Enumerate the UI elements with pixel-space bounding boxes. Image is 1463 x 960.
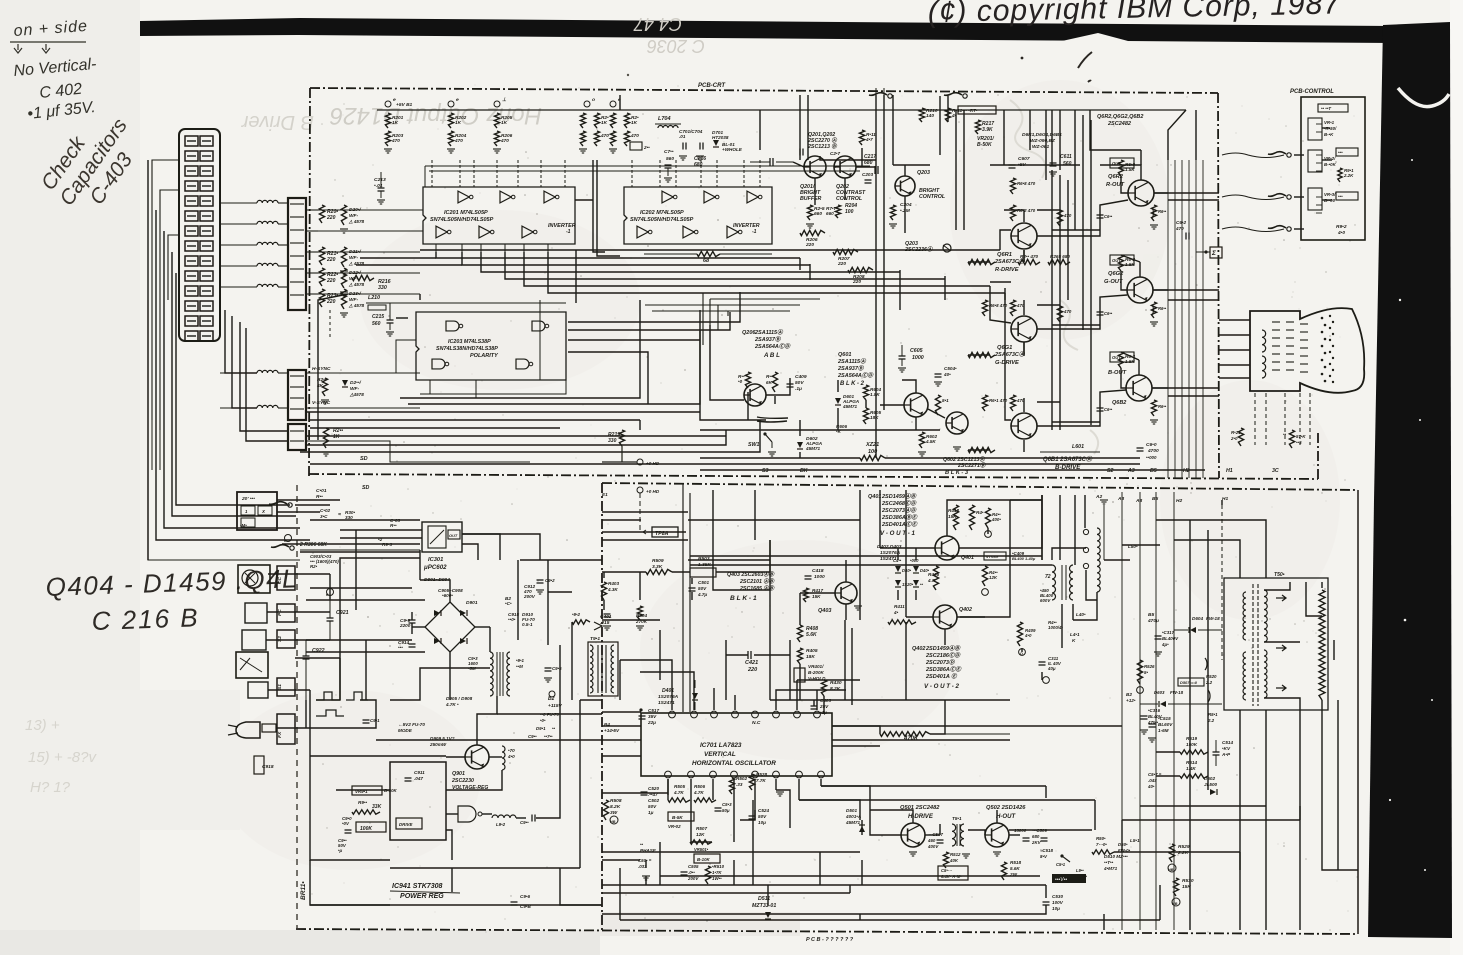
svg-text:45M71: 45M71 (842, 404, 858, 409)
svg-text:A B L: A B L (763, 352, 780, 359)
svg-text:B L K - 2: B L K - 2 (840, 381, 865, 387)
wires vertical osc area (620, 660, 672, 700)
bus loop around IC203 (396, 317, 408, 319)
svg-text:C 2036: C 2036 (646, 36, 705, 56)
photocopy speckle (300, 85, 1358, 933)
svg-text:C5•1: C5•1 (1056, 862, 1066, 867)
svg-text:1K: 1K (392, 120, 399, 126)
resistor R630 1.5K (1118, 160, 1123, 176)
resistor R207 220 (833, 249, 858, 254)
svg-text:R508: R508 (610, 798, 622, 804)
upper section border PCB-CRT (310, 88, 1218, 93)
svg-text:+14•5V: +14•5V (604, 728, 620, 733)
inductor L902 (492, 815, 516, 818)
white squiggle in black bar (1398, 88, 1449, 107)
svg-text:JL500: JL500 (1204, 782, 1218, 787)
control pins (1316, 123, 1322, 125)
svg-text:B Driver: B Driver (240, 111, 314, 133)
svg-text:4.3K: 4.3K (607, 587, 618, 592)
svg-text:G-DRIVE: G-DRIVE (995, 360, 1019, 366)
svg-text:4.7K •: 4.7K • (445, 702, 459, 707)
svg-text:18K: 18K (870, 415, 879, 420)
svg-text:VR•02: VR•02 (668, 824, 681, 829)
svg-text:B-5K: B-5K (672, 815, 683, 820)
svg-text:Σ: Σ (1211, 250, 1216, 257)
diode D208 (342, 380, 348, 386)
svg-text:2SC2186ⒸⒹ: 2SC2186ⒸⒹ (925, 652, 961, 659)
nested box corners left of ABL (702, 293, 704, 345)
svg-text:•C317: •C317 (1162, 630, 1175, 635)
svg-text:1-6M: 1-6M (1158, 728, 1169, 733)
svg-text:V - O U T - 2: V - O U T - 2 (924, 683, 959, 690)
edge connector P202 (288, 370, 306, 420)
left vertical wire bundle (156, 210, 310, 540)
power section wires (310, 690, 390, 860)
spark gaps (1205, 658, 1210, 702)
svg-text:50V: 50V (648, 804, 657, 809)
svg-text:•000: •000 (910, 558, 919, 563)
yoke coil tall (1097, 528, 1100, 592)
svg-text:•0: •0 (738, 379, 743, 384)
svg-text:R430: R430 (830, 680, 842, 686)
svg-text:1K: 1K (631, 120, 638, 126)
resistor R220 68 (697, 251, 720, 256)
svg-text:•C316: •C316 (1148, 708, 1161, 713)
node symbols on rail (385, 101, 391, 107)
svg-text:B-•K: B-•K (1324, 132, 1334, 137)
svg-text:R519: R519 (1186, 736, 1197, 741)
svg-text:μPC602: μPC602 (423, 564, 447, 571)
svg-text:2.2K: 2.2K (1343, 173, 1354, 178)
svg-text:2SA673CⒶ: 2SA673CⒶ (994, 258, 1026, 265)
flyback taps (1264, 582, 1290, 590)
transistor Q502 (985, 823, 1009, 847)
sigma box on border (1210, 247, 1222, 258)
svg-text:5•: 5• (1144, 670, 1148, 675)
left page dashed edge (296, 485, 298, 928)
svg-text:C5•⋯: C5•⋯ (941, 868, 953, 873)
resistor pair column 4 (580, 113, 585, 128)
black bar speckles (1389, 159, 1433, 871)
svg-text:5.6K: 5.6K (1010, 866, 1020, 871)
svg-text:C605: C605 (910, 348, 923, 354)
svg-text:2SD1459ⒶⒷ: 2SD1459ⒶⒷ (881, 493, 917, 500)
svg-text:57•K: 57•K (1296, 434, 1306, 439)
svg-text:C517: C517 (648, 708, 659, 713)
svg-text:INVERTER: INVERTER (548, 223, 576, 229)
svg-text:12K: 12K (989, 575, 998, 580)
svg-text:2.2: 2.2 (1205, 680, 1213, 685)
transistor Q602b (946, 412, 968, 434)
resistor cluster R211 R212 (319, 205, 324, 223)
svg-text:••T••: ••T•• (1104, 860, 1114, 865)
svg-text:560: 560 (1063, 161, 1072, 167)
black strip top (140, 18, 1392, 43)
svg-text:FX: FX (277, 731, 283, 738)
diodes D402-D405 (895, 566, 901, 572)
wires BLK-1 (602, 571, 646, 573)
bottom rail wires lower section (620, 919, 1160, 921)
svg-text:•C•: •C• (505, 601, 512, 606)
IC202 pin stubs (631, 160, 633, 187)
svg-text:5•1: 5•1 (942, 398, 949, 403)
IC202 inverters bottom row (637, 226, 648, 238)
svg-text:1•7K: 1•7K (712, 870, 722, 875)
svg-text:C514: C514 (1222, 740, 1233, 745)
svg-text:40•: 40• (1147, 784, 1155, 789)
resistor horizontals drive (968, 259, 995, 264)
boxed label VR range (958, 106, 996, 114)
svg-text:H2: H2 (1183, 468, 1190, 474)
svg-text:C502: C502 (648, 798, 659, 803)
svg-text:C501: C501 (698, 580, 709, 585)
svg-text:680: 680 (1032, 834, 1040, 839)
svg-text:+5V B1: +5V B1 (396, 102, 413, 108)
resistor R4 12K (982, 566, 987, 586)
transistor Q401 (935, 536, 959, 560)
svg-text:POLARITY: POLARITY (470, 353, 499, 359)
svg-text:+WHOLE: +WHOLE (722, 147, 743, 152)
svg-text:1K: 1K (333, 434, 340, 440)
resistor network drive stage (1010, 178, 1015, 194)
svg-text:4•0: 4•0 (1024, 633, 1032, 638)
node +0 HD upper (637, 459, 643, 465)
yoke pins (1083, 529, 1088, 534)
svg-text:SN74LS05N/HD74LS05P: SN74LS05N/HD74LS05P (630, 217, 694, 223)
svg-text:2SA673CⒶ: 2SA673CⒶ (994, 351, 1026, 358)
edge connector P201 (288, 198, 306, 310)
svg-text:B5: B5 (1150, 468, 1157, 474)
power region horizontal wires (310, 519, 420, 521)
svg-text:3.3K: 3.3K (652, 564, 663, 570)
svg-text:15) + -8?v: 15) + -8?v (28, 749, 97, 766)
dashed stub (329, 310, 331, 340)
right bus horizontals (1154, 192, 1219, 194)
fuse F901 (262, 724, 276, 732)
transistor Q201 bright buffer (804, 156, 826, 178)
svg-text:2SA1115Ⓐ: 2SA1115Ⓐ (837, 358, 867, 365)
svg-text:R6••: R6•• (1158, 404, 1167, 409)
svg-text:40μ: 40μ (1047, 666, 1056, 671)
svg-text:2SD401AⒸⒺ: 2SD401AⒸⒺ (881, 521, 918, 528)
svg-text:VR•3/: VR•3/ (1324, 192, 1336, 197)
transistor Q501 (901, 823, 925, 847)
svg-text:C409: C409 (795, 374, 807, 380)
left long wires (151, 420, 153, 470)
svg-text:L704: L704 (658, 116, 671, 122)
svg-text:Q6R2,Q6G2,Q6B2: Q6R2,Q6G2,Q6B2 (1097, 114, 1143, 120)
svg-text:400V: 400V (927, 844, 939, 849)
svg-text:470: 470 (500, 138, 509, 144)
svg-text:100V: 100V (1052, 900, 1064, 905)
svg-text:3•C: 3•C (320, 514, 328, 519)
edge connector P203 (288, 424, 306, 450)
pot VR501 B-10K (694, 854, 720, 863)
svg-text:140: 140 (926, 113, 934, 119)
svg-text:1S2076A: 1S2076A (658, 694, 679, 700)
svg-text:L9•2: L9•2 (496, 822, 506, 827)
svg-text:R•21: R•21 (1231, 430, 1241, 435)
svg-text:B-50K: B-50K (977, 142, 992, 148)
svg-text:C921: C921 (336, 610, 349, 616)
svg-text:SW1: SW1 (748, 442, 759, 448)
resistor R605 18K (863, 408, 868, 424)
svg-text:H2: H2 (1176, 498, 1182, 504)
svg-text:C4 47: C4 47 (633, 14, 682, 34)
svg-text:220: 220 (747, 667, 757, 673)
wires IC301 (340, 529, 422, 531)
svg-text:SN74LS38N/HD74LS38P: SN74LS38N/HD74LS38P (436, 346, 498, 352)
svg-text:•600•: •600• (442, 593, 453, 598)
svg-text:2KV: 2KV (1031, 840, 1042, 845)
svg-text:•R510: •R510 (712, 864, 725, 869)
svg-text:R529: R529 (1178, 844, 1190, 850)
svg-text:L9••: L9•• (1076, 868, 1084, 873)
svg-text:R9•2: R9•2 (1336, 224, 1347, 230)
svg-text:C6•0: C6•0 (1146, 442, 1157, 448)
white page edge right (1450, 0, 1463, 955)
svg-text:VR•1: VR•1 (1324, 120, 1335, 125)
svg-text:1000/4•: 1000/4• (1048, 625, 1063, 630)
svg-text:470μ•: 470μ• (1075, 874, 1087, 879)
IC203 NAND gates bottom (432, 359, 445, 369)
test point TP8A (652, 527, 678, 537)
svg-text:220: 220 (326, 215, 336, 221)
svg-text:H-DRIVE: H-DRIVE (908, 814, 934, 820)
svg-text:.01: .01 (679, 134, 686, 139)
svg-text:Q502 2SD1426: Q502 2SD1426 (986, 805, 1026, 811)
svg-text:-1: -1 (566, 229, 571, 235)
svg-text:R6•8 470: R6•8 470 (1017, 181, 1036, 186)
transistor Q6R2 R-OUT (1128, 180, 1154, 206)
svg-text:R4•: R4• (976, 510, 984, 515)
svg-text:B-•0K: B-•0K (1324, 162, 1337, 167)
transistor Q601b (904, 393, 928, 417)
svg-text:C 216 B: C 216 B (91, 602, 200, 636)
boxed VR901 (352, 786, 382, 795)
transistor Q6R1 R-DRIVE (1011, 223, 1037, 249)
svg-text:1S20•: 1S20• (902, 582, 914, 587)
svg-text:D901: D901 (466, 600, 478, 606)
svg-text:C9•5: C9•5 (552, 666, 562, 671)
resistor R717 660 (835, 205, 840, 218)
svg-text:C524: C524 (758, 808, 769, 813)
control pot 1 (1308, 118, 1322, 140)
fuse P902 (572, 620, 590, 624)
svg-text:68: 68 (703, 258, 710, 264)
white notch in top strip (1062, 33, 1128, 41)
svg-text:VR401/: VR401/ (808, 664, 824, 669)
svg-text:4.5K: 4.5K (925, 439, 936, 444)
svg-text:Q6B1 2SA673CⒶ: Q6B1 2SA673CⒶ (1043, 455, 1093, 463)
svg-text:R518: R518 (1010, 860, 1021, 865)
svg-text:D50•: D50• (1118, 842, 1128, 847)
connector curl 2 (290, 546, 294, 550)
power rail +5V (377, 109, 1186, 111)
flyback transformer T501 outline (1224, 578, 1328, 710)
svg-text:5.6K: 5.6K (806, 632, 817, 638)
svg-text:T9•1: T9•1 (590, 636, 600, 642)
edge connector boxes lower (277, 566, 295, 590)
svg-text:R••: R•• (316, 494, 323, 500)
CRT heater coils (1262, 330, 1266, 352)
svg-text:D603: D603 (1154, 690, 1165, 695)
svg-text:L601: L601 (1072, 444, 1084, 450)
svg-text:D6R1,D6G1,D6B1: D6R1,D6G1,D6B1 (1022, 132, 1062, 138)
svg-text:4•0: 4•0 (1337, 230, 1345, 236)
upper right rail drops (1029, 110, 1031, 150)
svg-text:50V: 50V (698, 586, 707, 591)
svg-text:XZ21: XZ21 (865, 442, 879, 448)
resistor R218 4K (322, 378, 327, 396)
wire bundle connector to edge (220, 202, 257, 204)
transistor Q901 voltage reg (465, 745, 489, 769)
svg-text:460: 460 (927, 838, 936, 843)
svg-text:••000: ••000 (1146, 455, 1157, 460)
svg-text:e: e (456, 98, 459, 103)
IC201 pin stubs (431, 160, 433, 187)
svg-text:R503: R503 (698, 556, 710, 562)
transistor Q403 (835, 582, 857, 604)
svg-text:OUT: OUT (449, 533, 458, 538)
svg-text:35V: 35V (648, 714, 657, 719)
svg-text:22μ: 22μ (647, 720, 656, 725)
svg-text:R505: R505 (674, 784, 685, 789)
svg-text:D9•1: D9•1 (536, 726, 546, 731)
IC941 STK7308 box (390, 762, 446, 840)
svg-text:470: 470 (391, 138, 400, 144)
resistor R219 330 (619, 430, 624, 446)
right bus verticals (1121, 492, 1123, 930)
resistor R711 (859, 130, 864, 145)
svg-text:⊥: ⊥ (502, 97, 507, 103)
resistor pair R209 470 680 (1018, 259, 1040, 264)
svg-text:B L K - 3: B L K - 3 (945, 470, 969, 476)
DRIVE sub box (396, 818, 422, 829)
svg-text:R509: R509 (652, 558, 664, 564)
svg-text:WZ-061: WZ-061 (1032, 144, 1049, 150)
svg-text:1.4K: 1.4K (1186, 766, 1196, 771)
long wires mid lower (832, 739, 1010, 741)
svg-text:←5V2 FU-70: ←5V2 FU-70 (398, 722, 425, 727)
svg-text:N.C: N.C (752, 720, 761, 726)
svg-text:WZ-090,BZ: WZ-090,BZ (1030, 138, 1056, 144)
svg-text:C•02: C•02 (320, 508, 331, 513)
svg-text:C9•1: C9•1 (370, 718, 380, 723)
svg-text:2SC2270 Ⓐ: 2SC2270 Ⓐ (807, 137, 837, 144)
svg-text:D510 MZ•••: D510 MZ••• (1104, 854, 1128, 859)
svg-text:200V: 200V (687, 876, 699, 881)
svg-text:••: •• (552, 726, 556, 731)
svg-text:18K: 18K (806, 654, 815, 660)
flyback bottom wires (1239, 710, 1241, 930)
IC701 pin wires down (667, 779, 669, 795)
svg-text:•••: ••• (1338, 150, 1343, 155)
svg-text:C9••: C9•• (520, 820, 529, 825)
wires lower right (1156, 751, 1180, 753)
connector J201 shell (179, 129, 220, 341)
transistor Q203 bright control (895, 176, 915, 196)
svg-text:A3: A3 (1117, 496, 1124, 502)
svg-text:•0•: •0• (540, 718, 546, 723)
wires connector left side (152, 160, 179, 420)
svg-text:7.7K: 7.7K (756, 778, 766, 783)
svg-text:HB: HB (610, 820, 616, 824)
IC201 box (423, 187, 575, 244)
diode D601 (835, 398, 841, 404)
svg-text:R502: R502 (736, 776, 747, 781)
faint squiggle right (1010, 100, 1098, 454)
svg-text:VR501•: VR501• (694, 847, 709, 852)
svg-text:H1: H1 (1222, 496, 1228, 502)
pulse shape symbols (316, 692, 368, 700)
resistor R206 220 (800, 230, 825, 235)
bridge rectifier D901 (425, 602, 475, 652)
IC201 inverters bottom row (436, 226, 447, 238)
svg-text:6K: 6K (766, 380, 773, 385)
svg-text:P C B - ? ? ? ? ? ?: P C B - ? ? ? ? ? ? (806, 937, 854, 943)
svg-text:T50•: T50• (1274, 572, 1285, 578)
svg-text:220: 220 (326, 278, 336, 284)
svg-text:Q901: Q901 (452, 771, 465, 777)
svg-text:BL60V: BL60V (1158, 722, 1173, 727)
svg-text:4K: 4K (316, 383, 324, 389)
resistor pair column 2 (448, 113, 453, 128)
svg-text:≈: ≈ (338, 512, 341, 518)
boxed label VT (984, 552, 1006, 560)
transistor Q206 ABL (744, 384, 766, 406)
svg-text:2SA564AⒸⒹ: 2SA564AⒸⒹ (837, 372, 874, 379)
svg-text:•9•2: •9•2 (572, 612, 581, 617)
svg-text:220: 220 (852, 279, 861, 285)
svg-text:4•0: 4•0 (507, 754, 515, 759)
boxed R904 100K (356, 822, 386, 832)
svg-text:R506: R506 (694, 784, 705, 789)
svg-text:IC202 M74LS05P: IC202 M74LS05P (640, 210, 684, 216)
resistor R7 cluster below CRT (1238, 428, 1243, 446)
svg-text:OUT: OUT (1112, 258, 1121, 263)
svg-text:7⋯0•: 7⋯0• (1096, 842, 1107, 847)
svg-text:C6••: C6•• (1104, 214, 1113, 219)
resistor R604 1.8K (863, 385, 868, 400)
svg-text:••: •• (1283, 432, 1287, 437)
BLK-2 region wires (700, 330, 766, 420)
svg-text:330: 330 (378, 285, 387, 291)
svg-text:470μ: 470μ (1147, 618, 1159, 624)
svg-text:MODE: MODE (398, 728, 413, 733)
mid vertical rails long (1051, 170, 1053, 430)
svg-text:S2: S2 (277, 636, 283, 642)
svg-text:•••: ••• (398, 645, 403, 650)
IC202 inverters top row (662, 191, 673, 203)
svg-text:2.2K: 2.2K (1177, 850, 1189, 856)
vertical pair wires mid (875, 95, 877, 160)
IC201 inverters top row (458, 191, 469, 203)
svg-text:2SC2073ⒶⒹ: 2SC2073ⒶⒹ (881, 507, 917, 514)
svg-text:S1: S1 (277, 684, 283, 690)
svg-text:G-OUT: G-OUT (1104, 279, 1123, 285)
svg-text:••M: ••M (516, 664, 523, 669)
CRT pin dots (1321, 317, 1324, 320)
svg-text:2SC2468ⒸⒹ: 2SC2468ⒸⒹ (881, 500, 917, 507)
power plug FX (236, 722, 260, 738)
svg-text:L50•: L50• (1128, 544, 1138, 549)
svg-text:R••: R•• (766, 374, 773, 379)
svg-text:470: 470 (600, 133, 609, 139)
svg-text:2SD386AⒷⒺ: 2SD386AⒷⒺ (881, 514, 918, 521)
svg-text:1K: 1K (455, 120, 462, 126)
svg-text:45M71: 45M71 (805, 446, 821, 451)
